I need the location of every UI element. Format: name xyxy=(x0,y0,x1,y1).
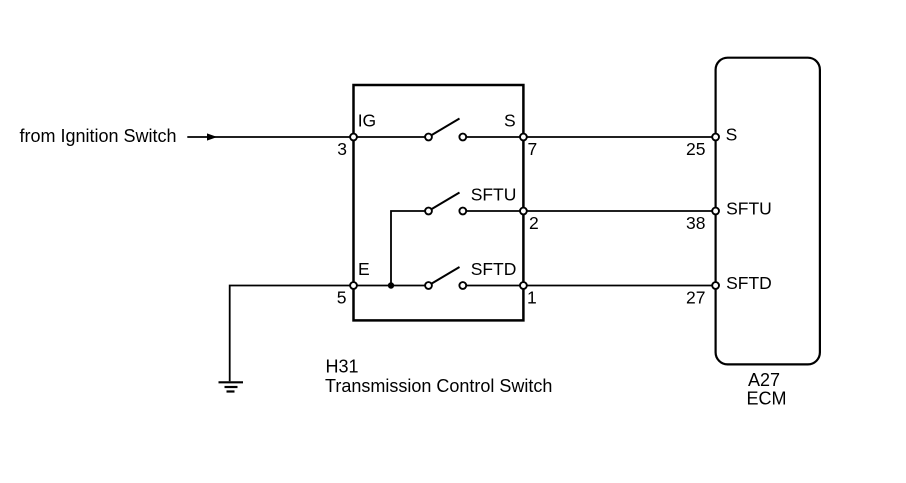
wire SFTU contact to terminal 2 xyxy=(465,210,523,212)
junction node on SFTD row xyxy=(388,282,394,288)
terminal IG pin 3 xyxy=(350,134,357,141)
svg-text:S: S xyxy=(726,125,738,145)
terminal SFTU pin 2 xyxy=(520,208,527,215)
svg-text:27: 27 xyxy=(686,288,705,308)
wire switch contact to S terminal row 1 xyxy=(465,136,523,138)
switch SW1 left contact xyxy=(425,134,432,141)
svg-text:3: 3 xyxy=(337,139,347,159)
wire from ignition switch to IG terminal xyxy=(187,136,353,138)
svg-text:SFTD: SFTD xyxy=(726,273,772,293)
svg-text:A27: A27 xyxy=(748,370,780,390)
terminal E pin 5 xyxy=(350,282,357,289)
wire E terminal to ground xyxy=(230,286,354,382)
svg-text:1: 1 xyxy=(527,288,537,308)
svg-text:5: 5 xyxy=(337,288,347,308)
svg-text:SFTD: SFTD xyxy=(471,259,517,279)
svg-text:S: S xyxy=(504,110,516,130)
switch SW2 blade (SFTU) xyxy=(431,193,460,210)
box H31 Transmission Control Switch xyxy=(354,85,524,320)
switch SW3 blade (SFTD) xyxy=(431,267,460,284)
wire S terminal to ECM S terminal xyxy=(523,136,715,138)
svg-text:38: 38 xyxy=(686,213,705,233)
svg-text:H31: H31 xyxy=(326,357,359,377)
svg-text:IG: IG xyxy=(358,110,376,130)
svg-text:Transmission Control Switch: Transmission Control Switch xyxy=(325,376,552,396)
switch SW1 right contact xyxy=(459,134,466,141)
ECM terminal SFTU pin 38 xyxy=(712,208,719,215)
switch SW3 right contact xyxy=(459,282,466,289)
ECM terminal S pin 25 xyxy=(712,134,719,141)
wire IG terminal to switch contact row 1 xyxy=(354,136,427,138)
switch SW2 left contact xyxy=(425,208,432,215)
svg-text:ECM: ECM xyxy=(747,389,787,409)
svg-text:SFTU: SFTU xyxy=(726,198,772,218)
svg-text:2: 2 xyxy=(529,213,539,233)
ECM connector A27 xyxy=(716,58,820,365)
ground symbol xyxy=(219,382,244,391)
switch SW2 right contact xyxy=(459,208,466,215)
ECM terminal SFTD pin 27 xyxy=(712,282,719,289)
switch SW1 blade (IG-S) xyxy=(431,119,460,136)
svg-text:from Ignition Switch: from Ignition Switch xyxy=(20,126,177,146)
switch SW3 left contact xyxy=(425,282,432,289)
wire SFTD contact to terminal 1 xyxy=(465,285,523,287)
arrowhead on ignition wire xyxy=(207,133,217,140)
wire terminal 2 to ECM SFTU terminal xyxy=(523,210,715,212)
terminal SFTD pin 1 xyxy=(520,282,527,289)
wire SFTU vertical from contact down to junction xyxy=(391,211,429,286)
wire E terminal to SFTD contact xyxy=(354,285,427,287)
svg-text:SFTU: SFTU xyxy=(471,185,517,205)
svg-text:25: 25 xyxy=(686,139,705,159)
svg-text:E: E xyxy=(358,259,370,279)
terminal S pin 7 xyxy=(520,134,527,141)
wire terminal 1 to ECM SFTD terminal xyxy=(523,285,715,287)
svg-text:7: 7 xyxy=(528,139,538,159)
